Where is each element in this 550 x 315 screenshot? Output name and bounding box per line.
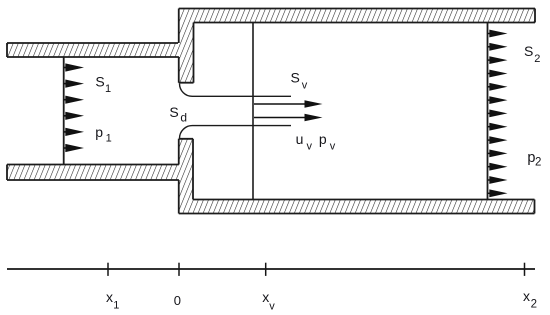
svg-text:S: S [524,43,533,59]
arrow S_v [254,100,323,108]
svg-text:2: 2 [531,298,537,310]
svg-text:v: v [330,141,336,153]
tick 0 [178,263,180,276]
right arrows (13) [488,30,508,198]
wall outline: lower assembly [7,139,535,214]
wall hatch: large pipe top wall [179,9,536,23]
svg-text:S: S [291,70,300,86]
svg-text:0: 0 [174,293,181,308]
svg-text:x: x [262,289,269,305]
svg-text:2: 2 [534,53,540,65]
jet boundary lower: curve + line [180,126,292,139]
svg-text:d: d [180,111,187,125]
velocity profile line right [487,23,489,200]
node x_v vertical front line [252,23,254,200]
wall hatch: lower orifice plate [179,139,193,200]
svg-text:u: u [296,131,304,147]
arrow u_v [254,114,323,122]
svg-text:p: p [319,131,327,147]
left arrows (6) [64,63,84,152]
svg-text:1: 1 [106,133,112,145]
svg-text:2: 2 [535,157,541,169]
svg-text:v: v [302,79,308,91]
wall hatch: small pipe top wall [7,43,179,57]
x axis line [7,268,535,270]
svg-text:p: p [95,124,103,140]
svg-text:S: S [169,104,178,120]
svg-text:1: 1 [113,299,119,311]
wall hatch: small pipe bottom wall [7,165,179,181]
svg-text:v: v [269,300,275,312]
tick xv [265,263,267,276]
wall outline: upper assembly [7,9,535,83]
svg-text:S: S [95,74,104,90]
jet boundary upper: curve + line [180,84,292,97]
tick x2 [524,263,526,276]
svg-text:v: v [307,141,313,153]
wall hatch: upper orifice plate [179,23,194,83]
tick x1 [107,263,109,276]
wall hatch: large pipe bottom wall [179,200,535,214]
svg-text:x: x [106,289,113,305]
velocity profile line left [63,57,65,165]
svg-text:x: x [523,288,530,304]
svg-text:1: 1 [105,83,111,95]
